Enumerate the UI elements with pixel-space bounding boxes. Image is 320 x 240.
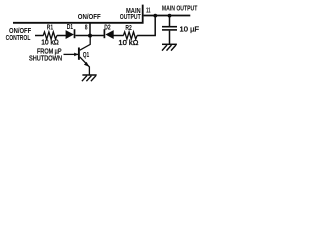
svg-text:D2: D2: [104, 23, 110, 32]
svg-text:10 µF: 10 µF: [180, 24, 200, 33]
svg-text:MAIN OUTPUT: MAIN OUTPUT: [162, 4, 198, 13]
wire: rail down to capacitor: [169, 16, 171, 26]
svg-text:R2: R2: [125, 23, 131, 32]
label R2: [125, 23, 131, 32]
wire: shutdown signal to Q1 base: [64, 53, 79, 55]
label D2: [104, 23, 110, 32]
svg-text:CONTROL: CONTROL: [6, 33, 31, 42]
label D1: [67, 22, 73, 31]
value 10 kOhm (R2): [118, 38, 138, 47]
svg-text:SHUTDOWN: SHUTDOWN: [29, 53, 62, 62]
wire: D1 to node A: [75, 35, 90, 37]
junction dot (R2 branch on rail): [153, 14, 157, 18]
ground (output capacitor): [162, 44, 177, 50]
pin number 8: [85, 22, 88, 31]
label FROM uP SHUTDOWN: [29, 46, 62, 62]
wire: node A to D2: [90, 35, 104, 37]
label ON/OFF CONTROL: [6, 26, 32, 42]
label R1: [47, 23, 53, 32]
svg-text:R1: R1: [47, 23, 53, 32]
svg-text:11: 11: [146, 6, 151, 15]
value 10 uF: [180, 24, 200, 33]
pin 8 lead wire: [89, 23, 91, 35]
resistor R2: [123, 32, 137, 39]
arrowhead into Q1 base: [74, 53, 78, 57]
svg-text:ON/OFF: ON/OFF: [78, 12, 101, 21]
ground (Q1 emitter): [82, 75, 97, 81]
resistor R1: [43, 32, 57, 39]
value 10 kOhm (R1): [41, 38, 59, 47]
pin label ON/OFF (inside IC above pin 8): [78, 12, 101, 21]
pin number 11: [146, 6, 151, 15]
wire: capacitor to ground: [169, 31, 171, 45]
capacitor C1: [162, 27, 177, 30]
node A junction dot: [88, 34, 92, 38]
wire: R1 to D1: [57, 35, 66, 37]
junction dot (capacitor branch on rail): [168, 14, 172, 18]
svg-text:Q1: Q1: [83, 50, 90, 59]
label MAIN OUTPUT (rail): [162, 4, 198, 13]
svg-text:OUTPUT: OUTPUT: [120, 12, 141, 21]
transistor Q1: [79, 36, 90, 75]
svg-text:D1: D1: [67, 22, 73, 31]
pin 11 lead / output rail wire: [144, 15, 191, 17]
diode D1: [66, 29, 75, 39]
wire: D2 to R2: [114, 35, 124, 37]
IC U1 partial outline (bottom and right edge): [13, 5, 143, 23]
diode D2: [104, 29, 113, 39]
pin label MAIN OUTPUT (inside IC left of pin 11): [120, 6, 141, 21]
svg-text:8: 8: [85, 22, 88, 31]
wire: ON/OFF CONTROL to R1: [35, 35, 44, 37]
label Q1: [83, 50, 90, 59]
wire: R2 up to output rail: [137, 16, 155, 36]
svg-text:10 kΩ: 10 kΩ: [118, 38, 138, 47]
